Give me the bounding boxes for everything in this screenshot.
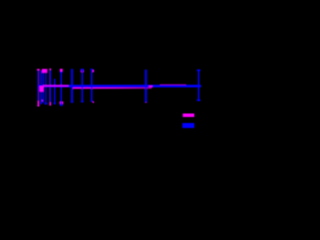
blue error bar x=54.6 xyxy=(54,79,56,105)
magenta faint top fringe x=160-186 xyxy=(160,84,186,86)
magenta top caps x=43.3 and x=45.9 xyxy=(42,69,45,73)
blue error bar x=43.3 xyxy=(42,73,44,103)
blue error bar x=91.7 xyxy=(91,69,93,102)
magenta fit line end cap x=150.5 xyxy=(149,86,153,88)
magenta bar x=93.2 top bit xyxy=(93,70,94,73)
blue error bar x=145.9 xyxy=(145,70,147,103)
blue error bar x=41.2 xyxy=(40,70,42,104)
blue error bar x=38.3 xyxy=(37,70,39,101)
blue error bar x=198.6 xyxy=(197,69,200,101)
blue error bar x=61.2 xyxy=(60,72,63,107)
magenta error bar x=38.3 xyxy=(37,69,40,107)
blue error bar x=72.0 xyxy=(71,69,73,103)
magenta error bar x=50.2 xyxy=(49,68,51,105)
magenta cap x=61.2 top xyxy=(60,69,63,72)
blue error bar x=82.2 xyxy=(81,69,84,103)
magenta bar x=93.2 bottom bit xyxy=(93,101,94,103)
magenta bottom bit x=42.2 xyxy=(41,100,43,102)
magenta cap x=82.2 xyxy=(81,70,84,72)
blue error bar x=45.9 xyxy=(45,73,48,105)
magenta fit line lower segment xyxy=(72,87,152,89)
magenta data marker (42,88.5) xyxy=(39,86,43,92)
magenta tinge x=145.9 bottom xyxy=(145,101,147,103)
legend swatch magenta xyxy=(183,114,195,118)
magenta fit line upper segment xyxy=(43,85,69,87)
blue error bar x=50.2 xyxy=(49,70,51,102)
blue fit line xyxy=(38,85,201,88)
legend swatch blue xyxy=(182,123,194,128)
magenta cap x=61.2 bottom xyxy=(60,102,64,105)
